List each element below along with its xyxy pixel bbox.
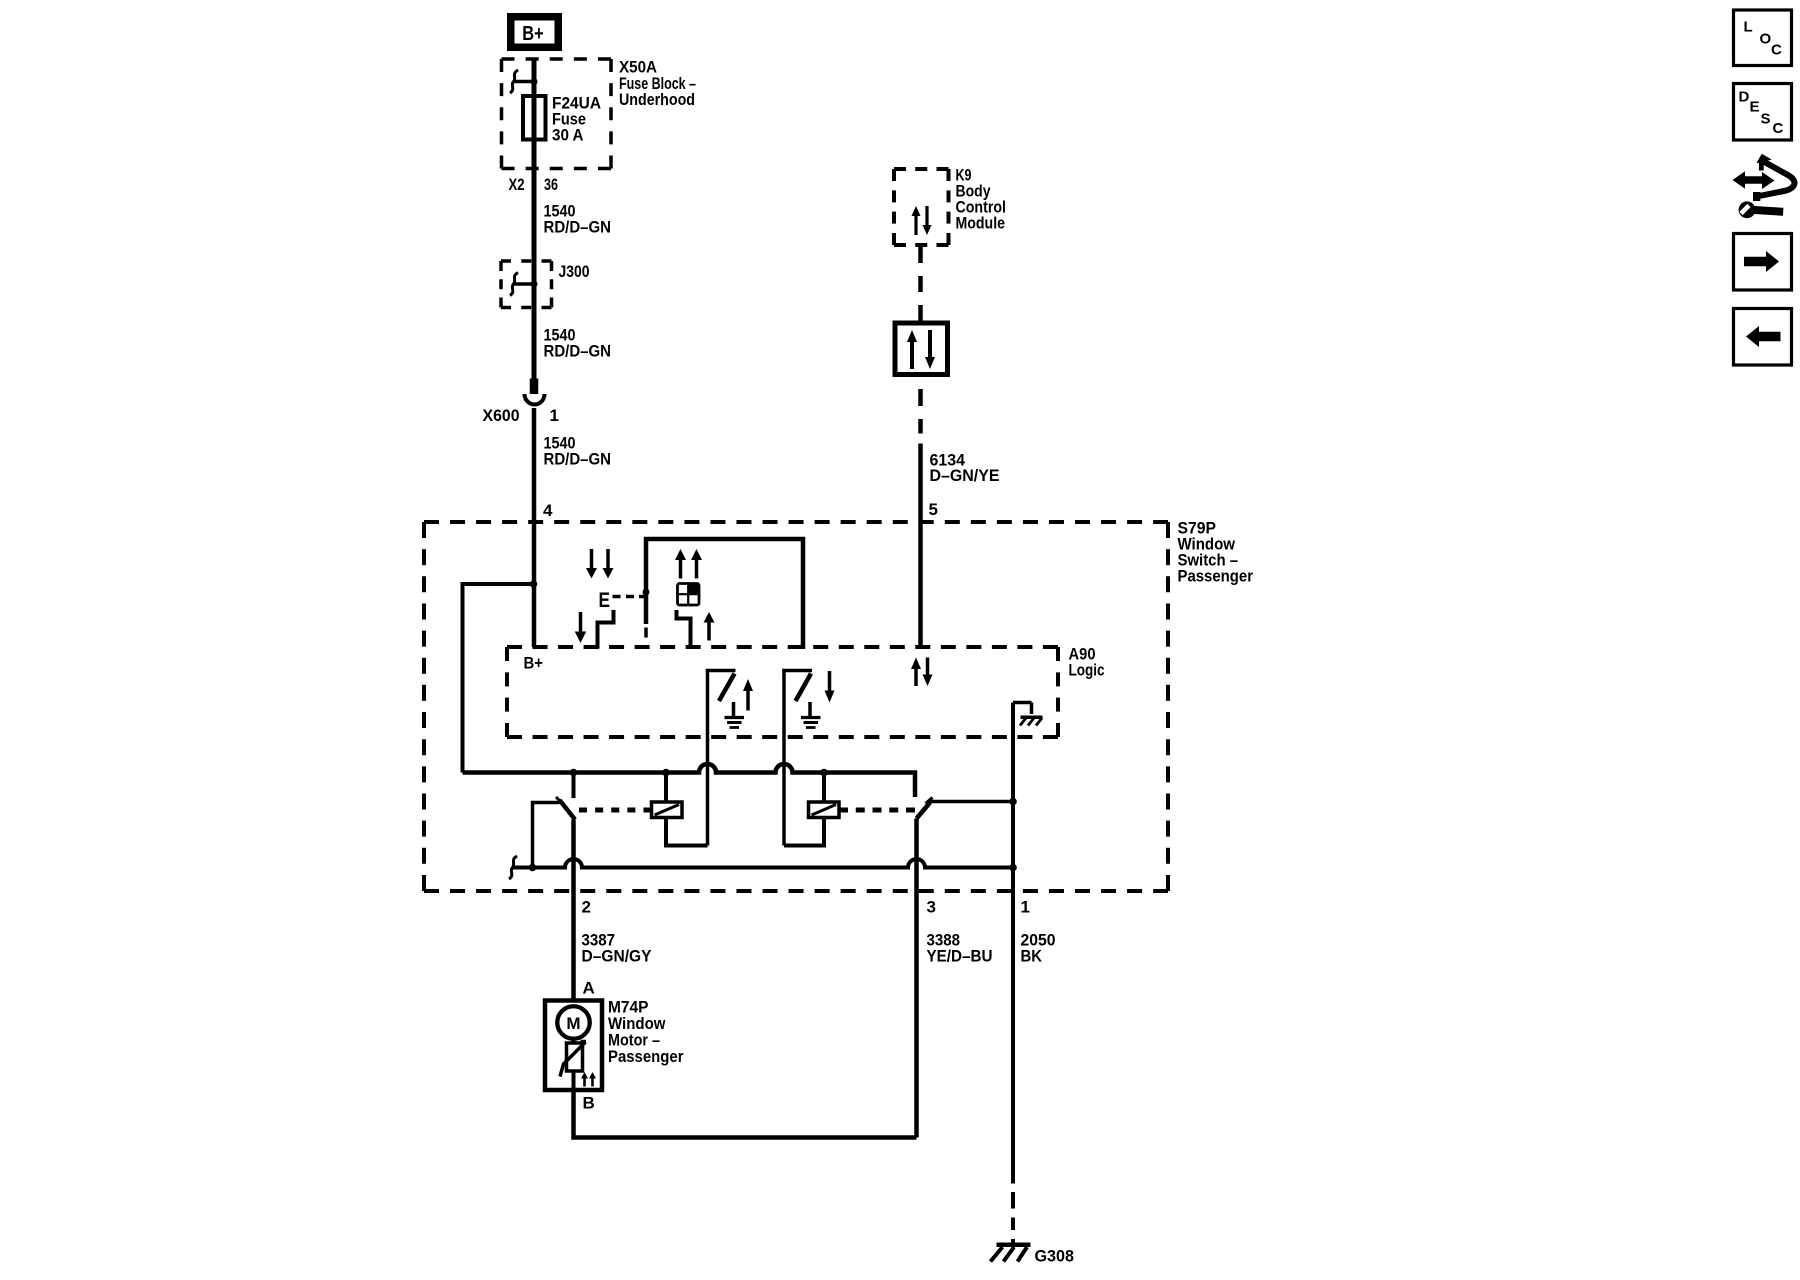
K9 serial data arrows [912,206,921,216]
relay driver 2 output wire [782,669,786,846]
svg-text:RD/D–GN: RD/D–GN [544,342,612,361]
svg-text:30 A: 30 A [552,126,584,145]
svg-text:D–GN/GY: D–GN/GY [582,947,653,966]
switch 1 normal path [533,803,560,868]
nav icon DESC [1734,84,1792,141]
svg-text:G308: G308 [1035,1247,1075,1266]
dashed wire K9 to interface [918,247,923,321]
motor M74P box [545,1001,602,1091]
down arrow at contact [575,632,587,644]
window icon [678,584,700,606]
relay coil 1 [652,802,683,818]
wire B+ feed through fuse block [532,60,537,379]
svg-text:E: E [599,589,611,612]
svg-text:S: S [1761,111,1771,128]
svg-text:Passenger: Passenger [1178,567,1254,586]
relay coil 1 return [666,818,708,846]
node bus coil 2 [820,769,828,777]
relay coil 1 feed [664,773,668,803]
switch 1 fixed contact [572,773,576,799]
dashed wire interface down [918,389,923,406]
motor symbol [557,1006,590,1039]
svg-text:B: B [583,1094,595,1113]
connector J300 dashed outline [501,259,552,263]
svg-text:4: 4 [543,501,553,520]
svg-text:RD/D–GN: RD/D–GN [544,450,612,469]
svg-text:X2: X2 [509,175,525,194]
relay coil 2 feed [822,773,826,803]
window switch S79P dashed outline [424,520,1168,524]
svg-text:J300: J300 [559,262,590,281]
svg-text:D: D [1739,89,1750,106]
wire ground A90 to G308 [1011,703,1015,1184]
svg-text:Logic: Logic [1069,661,1105,680]
relay coil 2 [809,802,840,818]
switch 2 arm [917,803,931,819]
svg-text:M: M [566,1014,580,1033]
nav icon LOC [1734,10,1792,66]
svg-text:3: 3 [927,898,936,917]
node ground bus left [529,864,537,872]
relay driver 1 output wire [706,669,710,846]
connector X600 female terminal cup [525,394,545,405]
wire switch 1 to motor pin 2 [571,820,576,1001]
switch 1 arm [560,800,576,820]
up arrow at contact [704,612,715,623]
svg-text:O: O [1760,31,1772,48]
up switch contact [677,610,691,649]
svg-text:E: E [1750,99,1760,116]
svg-text:D–GN/YE: D–GN/YE [930,466,1000,485]
logic internal ground [1013,701,1032,705]
serial data arrows at pin 5 [911,658,921,670]
node bus left contact [570,769,578,777]
svg-text:B+: B+ [524,654,544,673]
relay driver 2 ground [808,702,812,716]
wire X600 to window switch [532,408,537,647]
ground bus torn end [509,856,517,879]
ground G308 [997,1243,1031,1248]
wire switch 2 to motor return pin 3 [914,819,919,1138]
down switch contact [598,610,614,649]
svg-text:YE/D–BU: YE/D–BU [927,947,993,966]
nav icon forward arrow [1734,234,1792,291]
up arrow driver 1 [743,679,753,691]
wire 2050 dashed to ground [1011,1192,1015,1209]
svg-text:Passenger: Passenger [608,1047,684,1066]
down arrow driver 2 [825,691,835,703]
wire motor internal [572,1071,576,1090]
fuse F24UA 30A [523,96,546,140]
svg-text:1: 1 [550,406,559,425]
linkage relay 1 [579,808,652,813]
nav icon schematic reference [1733,154,1795,218]
supply bus [463,764,916,797]
wire motor B to pin 3 [574,1090,917,1138]
relay coil 2 return [784,818,824,846]
svg-text:B+: B+ [522,23,544,45]
svg-text:5: 5 [929,500,938,519]
linkage relay 2 [839,808,915,813]
ground bus [513,859,1013,868]
relay driver 2 contact blade [796,674,812,702]
svg-text:1: 1 [1021,898,1030,917]
svg-text:L: L [1744,19,1753,36]
node on logic frame [643,589,650,596]
node bus coil 1 [662,769,670,777]
svg-text:RD/D–GN: RD/D–GN [544,218,612,237]
fuse block X50A dashed outline [502,57,612,61]
svg-text:C: C [1773,120,1784,137]
switch logic frame [646,539,803,649]
relay driver 1 ground [732,702,736,716]
node ground wire switch 2 [1009,798,1017,806]
svg-text:C: C [1771,42,1782,59]
relay driver 1 contact blade [719,674,735,702]
serial data interface box [895,323,948,375]
switch 1 arm tick [556,797,563,804]
svg-text:BK: BK [1021,947,1043,966]
power feed B+ symbol [511,17,559,48]
node B+ branch [530,580,538,588]
logic module A90 dashed outline [507,645,1058,649]
nav icon back arrow [1734,309,1792,366]
node ground bus right [1009,864,1017,872]
down arrows window down [586,568,597,579]
J300 clip terminal [514,282,534,286]
svg-text:36: 36 [544,175,558,194]
svg-text:Underhood: Underhood [619,90,695,109]
fuse block clip terminal [514,80,536,84]
body control module K9 dashed outline [894,167,949,171]
svg-text:2: 2 [582,898,591,917]
motor arrows [581,1072,588,1079]
connector X600 male terminal [530,379,539,395]
up arrows window up [675,549,686,560]
switch 2 arm tick [926,798,933,804]
svg-text:Module: Module [956,214,1006,233]
motor thermal protector [567,1043,583,1071]
svg-text:A: A [583,979,595,998]
svg-text:X600: X600 [483,406,520,425]
wire 6134 to window switch [918,444,923,648]
wire B+ branch to supply bus [463,584,534,773]
switch 2 normal path to ground wire [930,800,1014,804]
